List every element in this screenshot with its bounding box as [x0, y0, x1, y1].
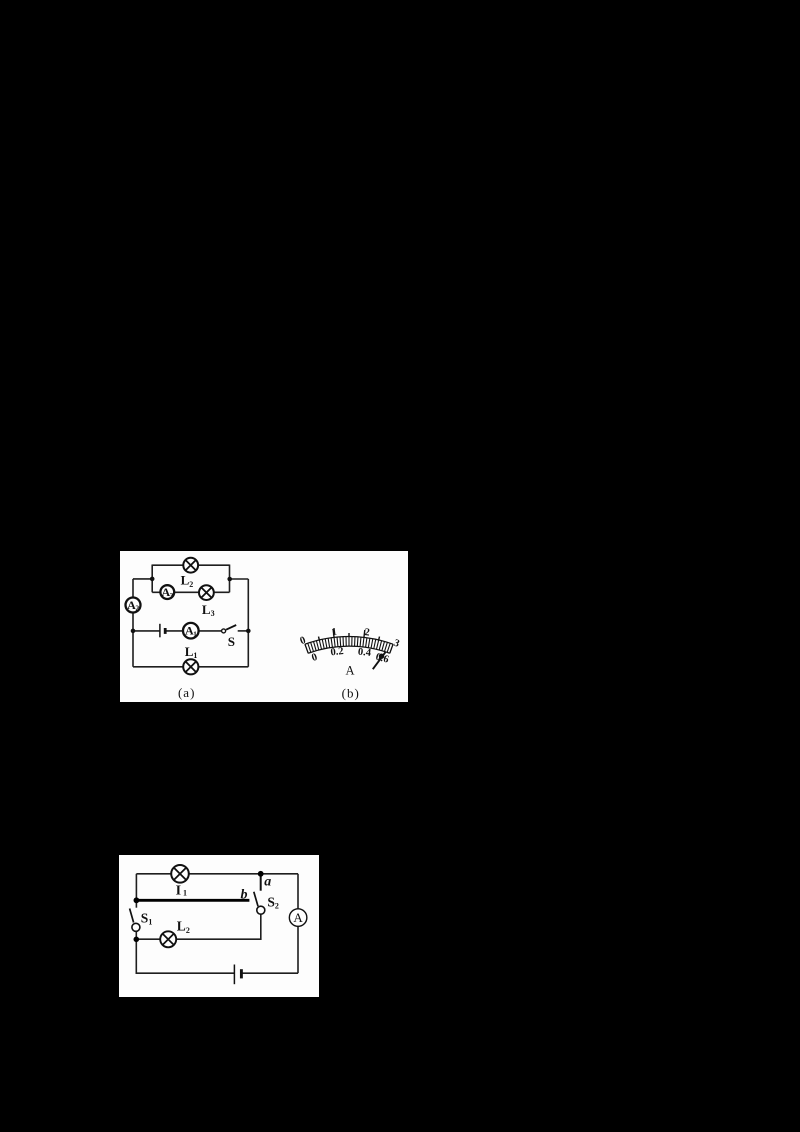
- ammeter A3: [160, 585, 174, 600]
- svg-text:I: I: [176, 883, 181, 898]
- svg-text:1: 1: [193, 629, 197, 638]
- node junction left lower: [134, 937, 140, 943]
- wire second branch A3-L3: [152, 591, 229, 593]
- wire battery to A1: [165, 630, 183, 632]
- node junction right parallel: [227, 577, 232, 582]
- wire left vertical: [132, 579, 134, 631]
- wire right vertical: [247, 579, 249, 667]
- svg-text:S1: S1: [141, 910, 153, 926]
- wire node a stub: [260, 874, 262, 891]
- wire b thick: [136, 899, 249, 902]
- svg-text:L1: L1: [185, 644, 198, 660]
- wire right branch connector: [229, 565, 231, 593]
- svg-text:0.2: 0.2: [330, 646, 344, 658]
- ammeter A: [289, 909, 307, 927]
- lamp L2: [183, 558, 198, 573]
- meter major ticks: [319, 629, 380, 640]
- node junction left parallel: [150, 577, 155, 582]
- svg-text:L2: L2: [177, 919, 190, 935]
- node junction left middle: [131, 629, 136, 634]
- ammeter A2: [126, 598, 141, 613]
- svg-text:L2: L2: [181, 573, 194, 589]
- battery cell: [234, 965, 241, 985]
- node b junction left: [134, 897, 140, 903]
- wire middle row to battery: [133, 630, 160, 632]
- svg-text:L3: L3: [202, 602, 215, 618]
- wire top branch L2: [152, 564, 229, 566]
- circuit figure (a)(b) white panel: [120, 551, 408, 702]
- svg-text:(a): (a): [178, 685, 195, 700]
- wire node right to outer: [230, 578, 249, 580]
- wire left branch connector: [151, 565, 153, 593]
- svg-text:0: 0: [310, 652, 318, 664]
- switch S1: [130, 909, 140, 932]
- meter hatch ticks: [305, 637, 393, 654]
- node a: [258, 871, 264, 877]
- svg-text:b: b: [241, 888, 248, 903]
- lamp L1: [183, 659, 198, 674]
- svg-text:3: 3: [170, 591, 174, 600]
- svg-text:1: 1: [331, 627, 338, 639]
- switch S2: [254, 892, 265, 914]
- meter scale arc band: [305, 637, 393, 654]
- lamp L1: [171, 865, 189, 883]
- meter needle: [373, 652, 386, 669]
- ammeter A1: [183, 623, 199, 639]
- wire right vertical: [297, 874, 299, 973]
- svg-text:S: S: [228, 634, 235, 649]
- wire node left to outer: [133, 578, 152, 580]
- wire S2 down to lower row: [136, 914, 260, 939]
- lamp L2: [160, 931, 176, 947]
- switch S: [222, 625, 237, 633]
- svg-text:(b): (b): [342, 685, 360, 700]
- svg-text:0.4: 0.4: [357, 647, 372, 659]
- battery cell: [160, 624, 165, 638]
- wire bottom row right: [241, 972, 298, 974]
- svg-text:A: A: [345, 664, 354, 678]
- wire switch to right node: [238, 630, 249, 632]
- svg-text:2: 2: [135, 604, 139, 613]
- wire bottom row: [133, 666, 248, 668]
- wire A1 to switch: [198, 630, 221, 632]
- svg-text:1: 1: [183, 888, 187, 897]
- svg-text:a: a: [264, 874, 271, 889]
- svg-text:3: 3: [392, 638, 401, 650]
- wire left vertical upper: [135, 874, 137, 908]
- wire left vertical lower: [132, 631, 134, 667]
- svg-text:0: 0: [299, 635, 308, 647]
- lamp L3: [199, 585, 214, 600]
- wire top row: [136, 873, 298, 875]
- svg-text:S2: S2: [267, 894, 279, 910]
- wire left vertical lower + bottom row left: [136, 931, 234, 973]
- circuit figure 2 white panel: [119, 855, 319, 997]
- svg-text:A: A: [293, 910, 303, 925]
- svg-text:2: 2: [364, 627, 371, 639]
- node junction right middle: [246, 629, 251, 634]
